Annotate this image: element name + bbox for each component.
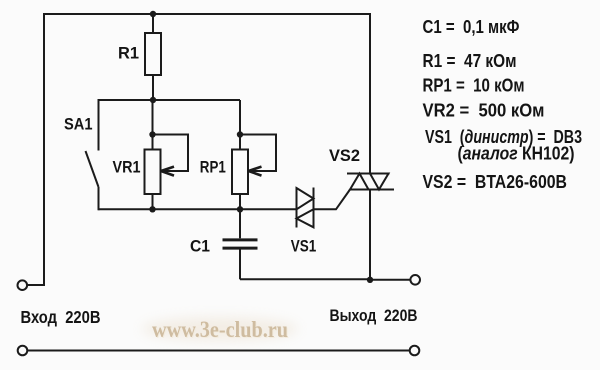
terminal output top xyxy=(410,275,420,285)
svg-text:www.3e-club.ru: www.3e-club.ru xyxy=(152,317,288,342)
wire C1 bottom to output junction xyxy=(240,278,370,280)
wire triac bottom to output junction xyxy=(369,190,371,281)
svg-text:RP1: RP1 xyxy=(200,158,226,177)
potentiometer RP1 xyxy=(232,135,276,195)
triac VS2 xyxy=(347,174,394,190)
svg-text:SA1: SA1 xyxy=(64,115,93,134)
wire left frame vertical xyxy=(28,13,45,285)
wire bottom control net SA1 to VS1 xyxy=(99,208,297,210)
wire top net from input to triac xyxy=(44,13,370,15)
node output junction xyxy=(367,277,373,283)
terminal output bottom xyxy=(410,346,420,356)
wire horizontal net SA1 to RP1 top xyxy=(99,99,241,101)
node junction RP1 bottom / C1 top xyxy=(237,206,243,212)
svg-text:C1 = 0,1 мкФ: C1 = 0,1 мкФ xyxy=(423,17,520,37)
svg-text:RP1 = 10 кОм: RP1 = 10 кОм xyxy=(423,76,525,96)
svg-text:VR2 = 500 кОм: VR2 = 500 кОм xyxy=(423,101,545,121)
wire VS1 to gate of VS2 xyxy=(314,190,351,210)
svg-text:Выход 220В: Выход 220В xyxy=(330,307,418,325)
wire R1 bottom lead xyxy=(152,75,154,100)
node RP1 wiper tap junction xyxy=(237,131,243,137)
terminal input top xyxy=(18,280,28,290)
node junction top wire to R1 xyxy=(150,11,156,17)
node VR1 wiper tap junction xyxy=(149,131,155,137)
wire R1 top lead xyxy=(152,14,154,33)
wire RP1 bottom lead xyxy=(239,194,241,209)
svg-text:VS2: VS2 xyxy=(329,146,360,165)
resistor R1 xyxy=(145,33,161,75)
svg-text:VR1: VR1 xyxy=(113,158,141,177)
svg-text:Вход 220В: Вход 220В xyxy=(21,307,101,327)
wire RP1 top lead xyxy=(239,100,241,150)
wire VR1 bottom lead xyxy=(152,194,154,209)
svg-text:R1 = 47 кОм: R1 = 47 кОм xyxy=(423,51,517,71)
wire to output terminal xyxy=(370,279,410,281)
node junction R1 bottom xyxy=(150,97,156,103)
potentiometer VR1 xyxy=(145,135,189,195)
svg-text:R1: R1 xyxy=(118,44,139,63)
diac VS1 xyxy=(297,188,314,228)
wire bottom return line xyxy=(28,350,410,352)
switch SA1 xyxy=(86,99,99,210)
watermark www.3e-club.ru xyxy=(142,317,298,343)
node junction VR1 bottom xyxy=(149,206,155,212)
capacitor C1 xyxy=(223,209,258,279)
wire VR1 top lead xyxy=(152,100,154,150)
svg-text:VS2 = BTA26-600B: VS2 = BTA26-600B xyxy=(423,172,568,192)
svg-text:VS1: VS1 xyxy=(291,237,317,256)
terminal input bottom xyxy=(18,346,28,356)
svg-text:C1: C1 xyxy=(190,237,210,256)
svg-text:(аналог КН102): (аналог КН102) xyxy=(458,144,575,164)
wire right frame vertical to triac top xyxy=(369,13,371,174)
